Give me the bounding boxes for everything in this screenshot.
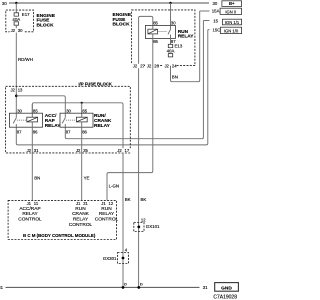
svg-text:RUN: RUN [101,206,112,212]
svg-text:RUN: RUN [75,206,86,212]
svg-text:B+: B+ [229,1,235,6]
svg-text:RELAY: RELAY [99,211,115,217]
svg-text:IGN 1/1: IGN 1/1 [225,20,240,25]
svg-text:40A: 40A [167,48,175,53]
svg-text:L-GN: L-GN [109,183,120,188]
svg-text:87: 87 [66,130,71,135]
svg-text:GX101: GX101 [146,224,160,229]
svg-text:30: 30 [66,108,71,113]
svg-text:31: 31 [34,148,39,153]
svg-text:ACC/RAP: ACC/RAP [19,206,40,212]
svg-text:21: 21 [83,201,88,206]
svg-text:25: 25 [83,148,88,153]
svg-text:RELAY: RELAY [22,211,38,217]
svg-text:11: 11 [34,201,39,206]
svg-text:85: 85 [33,108,38,113]
svg-text:CONTROL: CONTROL [95,217,119,223]
svg-text:J2: J2 [10,87,15,92]
svg-text:87: 87 [17,130,22,135]
svg-text:J2: J2 [76,148,81,153]
svg-text:CONTROL: CONTROL [18,217,42,223]
svg-text:30: 30 [171,21,176,26]
svg-text:J2: J2 [27,148,32,153]
svg-text:YE: YE [84,175,90,180]
svg-text:GND: GND [221,285,232,291]
svg-text:40A: 40A [12,17,20,22]
svg-text:24: 24 [172,64,177,69]
svg-text:15C: 15C [213,28,221,33]
svg-text:30: 30 [18,28,23,33]
svg-text:17: 17 [125,148,130,153]
svg-text:86: 86 [153,39,158,44]
svg-text:12: 12 [141,218,146,223]
svg-text:J1: J1 [27,201,32,206]
svg-text:BLOCK: BLOCK [113,22,131,28]
svg-text:BK: BK [125,197,131,202]
svg-text:30: 30 [213,1,218,6]
svg-text:31: 31 [203,285,208,290]
svg-text:J2: J2 [147,64,152,69]
svg-text:I/P FUSE BLOCK: I/P FUSE BLOCK [79,82,112,87]
svg-text:E17: E17 [22,12,30,17]
svg-text:C7A19028: C7A19028 [213,294,237,300]
svg-text:B C M (BODY CONTROL MODULE): B C M (BODY CONTROL MODULE) [23,233,96,238]
svg-text:IGN 0: IGN 0 [225,9,237,14]
svg-text:26: 26 [154,64,159,69]
svg-text:15: 15 [213,19,218,24]
svg-text:J2: J2 [117,148,122,153]
svg-text:J2: J2 [133,64,138,69]
svg-text:BK: BK [141,197,147,202]
svg-text:30: 30 [2,1,7,6]
svg-text:12: 12 [109,201,114,206]
svg-text:J2: J2 [164,64,169,69]
svg-text:27: 27 [140,64,145,69]
svg-text:15A: 15A [212,8,220,13]
svg-text:86: 86 [33,130,38,135]
svg-text:RD/WH: RD/WH [18,57,33,62]
svg-text:J1: J1 [76,201,81,206]
svg-text:RELAY: RELAY [94,123,111,129]
svg-text:CONTROL: CONTROL [69,222,93,228]
svg-text:85: 85 [153,21,158,26]
svg-text:RELAY: RELAY [45,123,62,129]
svg-text:J2: J2 [11,28,16,33]
svg-text:J1: J1 [101,201,106,206]
svg-text:BN: BN [34,175,40,180]
svg-text:GX301: GX301 [103,256,117,261]
svg-text:E13: E13 [175,44,183,49]
svg-text:86: 86 [82,130,87,135]
svg-text:BN: BN [172,74,178,79]
svg-text:85: 85 [82,108,87,113]
svg-text:BLOCK: BLOCK [37,22,55,28]
svg-text:RELAY: RELAY [178,34,195,40]
svg-text:13: 13 [18,87,23,92]
svg-text:IGN 1/0: IGN 1/0 [224,29,239,34]
svg-text:30: 30 [17,108,22,113]
svg-text:RELAY: RELAY [73,217,89,223]
svg-text:CRANK: CRANK [72,211,90,217]
